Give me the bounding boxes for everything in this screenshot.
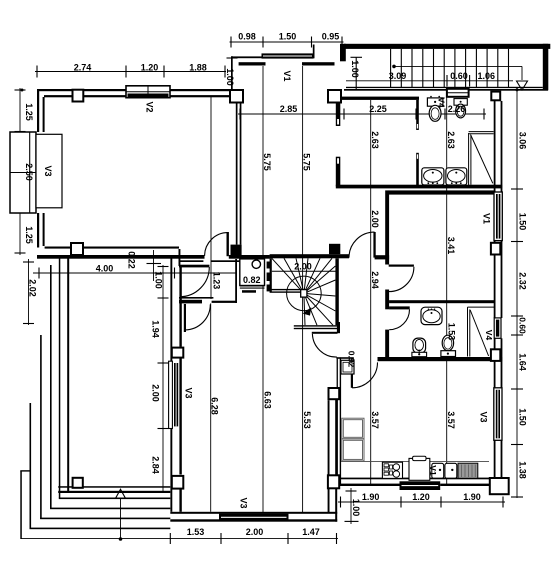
svg-text:0.95: 0.95	[322, 32, 340, 42]
svg-text:1.88: 1.88	[189, 63, 207, 73]
svg-text:V3: V3	[184, 387, 194, 398]
svg-text:V1: V1	[428, 465, 438, 476]
svg-text:2.94: 2.94	[370, 271, 380, 289]
svg-text:5.75: 5.75	[262, 153, 272, 171]
svg-text:2.02: 2.02	[28, 279, 38, 297]
svg-text:1.25: 1.25	[24, 103, 34, 121]
svg-text:V1: V1	[282, 70, 292, 81]
svg-text:2.85: 2.85	[280, 104, 298, 114]
svg-text:V2: V2	[145, 101, 155, 112]
svg-text:V3: V3	[479, 411, 489, 422]
svg-text:0.92: 0.92	[347, 351, 357, 368]
svg-text:5.53: 5.53	[302, 411, 312, 429]
svg-text:1.47: 1.47	[302, 527, 320, 537]
svg-text:1.38: 1.38	[518, 461, 528, 479]
svg-text:2.63: 2.63	[446, 131, 456, 149]
svg-text:1.64: 1.64	[518, 353, 528, 371]
svg-text:1.50: 1.50	[518, 408, 528, 426]
svg-text:1.50: 1.50	[518, 213, 528, 231]
svg-text:1.00: 1.00	[154, 271, 164, 289]
svg-text:1.00: 1.00	[351, 499, 361, 517]
svg-text:5.75: 5.75	[302, 153, 312, 171]
svg-text:1.90: 1.90	[463, 492, 481, 502]
svg-text:2.00: 2.00	[370, 210, 380, 228]
svg-text:2.50: 2.50	[24, 163, 34, 181]
svg-text:6.28: 6.28	[210, 397, 220, 415]
svg-text:0.22: 0.22	[127, 251, 137, 269]
svg-text:0.98: 0.98	[238, 32, 256, 42]
svg-text:1.00: 1.00	[350, 60, 360, 78]
svg-text:V1: V1	[482, 213, 492, 224]
svg-text:1.00: 1.00	[225, 68, 235, 86]
svg-text:1.94: 1.94	[151, 320, 161, 338]
svg-text:4.00: 4.00	[96, 264, 114, 274]
svg-text:1.50: 1.50	[279, 32, 297, 42]
svg-text:1.53: 1.53	[187, 527, 205, 537]
svg-text:V4: V4	[484, 330, 494, 341]
svg-text:2.74: 2.74	[74, 63, 92, 73]
svg-text:3.57: 3.57	[446, 411, 456, 429]
svg-text:2.00: 2.00	[151, 384, 161, 402]
svg-text:2.25: 2.25	[369, 104, 387, 114]
svg-text:1.25: 1.25	[24, 226, 34, 244]
svg-text:1.06: 1.06	[478, 71, 496, 81]
svg-text:V3: V3	[43, 165, 53, 176]
svg-text:3.57: 3.57	[370, 411, 380, 429]
svg-text:3.41: 3.41	[446, 237, 456, 255]
svg-text:3.09: 3.09	[389, 71, 407, 81]
svg-text:V3: V3	[239, 497, 249, 508]
svg-text:1.23: 1.23	[211, 272, 221, 290]
svg-text:0.60: 0.60	[450, 71, 468, 81]
svg-text:1.20: 1.20	[412, 492, 430, 502]
svg-text:2.32: 2.32	[518, 272, 528, 290]
svg-text:1.53: 1.53	[447, 323, 457, 341]
svg-text:6.63: 6.63	[263, 391, 273, 409]
svg-text:V4: V4	[437, 97, 447, 108]
svg-text:2.84: 2.84	[151, 456, 161, 474]
svg-text:0.82: 0.82	[243, 275, 261, 285]
svg-text:1.20: 1.20	[141, 63, 159, 73]
svg-text:2.26: 2.26	[448, 104, 466, 114]
svg-text:0.60: 0.60	[518, 317, 528, 334]
svg-text:3.06: 3.06	[518, 132, 528, 150]
svg-text:1.90: 1.90	[362, 492, 380, 502]
svg-text:2.00: 2.00	[294, 262, 312, 272]
svg-text:2.63: 2.63	[370, 131, 380, 149]
svg-text:2.00: 2.00	[246, 527, 264, 537]
